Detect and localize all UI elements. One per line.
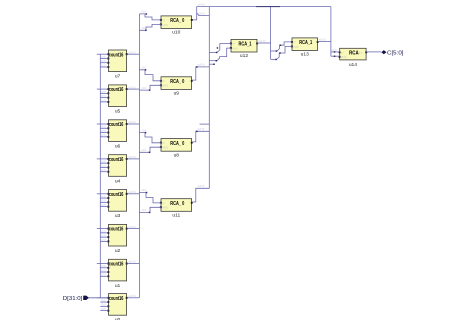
svg-text:q(3:0): q(3:0): [129, 120, 136, 124]
junction dot: [149, 89, 151, 91]
svg-text:c>: c>: [293, 40, 296, 44]
svg-text:u10: u10: [172, 30, 180, 36]
wire: u12 output to u12 bus: [257, 42, 271, 44]
adder u13 (RCA_1): [291, 38, 319, 58]
wire: output C[5:0]: [366, 51, 381, 53]
count block u4: [97, 155, 140, 185]
svg-text:(3:0: (3:0: [101, 168, 106, 172]
svg-text:(3:0: (3:0: [142, 66, 147, 70]
svg-text:u1: u1: [115, 283, 121, 289]
wire: u13 input staircase B: [277, 46, 292, 59]
count block u6: [97, 120, 140, 150]
svg-text:u5: u5: [115, 109, 121, 115]
junction dot: [276, 50, 278, 52]
wire: u14 input stub B: [331, 55, 340, 57]
svg-text:(4:0): (4:0): [162, 206, 168, 210]
svg-text:(5:0): (5:0): [341, 55, 347, 59]
junction dot: [196, 66, 198, 68]
input port marker D: [83, 296, 89, 300]
svg-text:u8: u8: [174, 152, 180, 158]
wire: u13 input bus rip A: [271, 50, 277, 52]
svg-text:RCA_ 0: RCA_ 0: [170, 201, 184, 207]
svg-text:u9: u9: [174, 91, 180, 97]
svg-text:(3:0: (3:0: [101, 199, 106, 203]
svg-text:(3:0: (3:0: [101, 234, 106, 238]
svg-text:(3:0: (3:0: [142, 128, 147, 132]
svg-text:RCA_ 0: RCA_ 0: [170, 18, 184, 24]
svg-text:(3:0: (3:0: [142, 188, 147, 192]
junction dot: [145, 69, 147, 71]
svg-text:count16: count16: [109, 296, 124, 302]
svg-text:(3:0: (3:0: [101, 90, 106, 94]
svg-text:(3:0: (3:0: [142, 26, 147, 30]
svg-text:count16: count16: [109, 227, 124, 233]
svg-text:(4:0): (4:0): [162, 84, 168, 88]
junction dot: [145, 30, 147, 32]
svg-text:(3:0: (3:0: [101, 164, 106, 168]
svg-text:u13: u13: [301, 52, 309, 58]
svg-text:(3:0: (3:0: [101, 229, 106, 233]
svg-text:(3:0: (3:0: [101, 160, 106, 164]
svg-text:c>: c>: [341, 51, 344, 55]
svg-text:u14: u14: [349, 62, 357, 68]
svg-text:count16: count16: [109, 192, 124, 198]
junction dot: [216, 60, 218, 62]
svg-text:s(4:0): s(4:0): [198, 127, 205, 131]
svg-text:s(4:0): s(4:0): [198, 12, 205, 16]
count block u7: [97, 50, 140, 80]
wire: u11 output to sum bus bottom: [192, 188, 210, 202]
svg-text:(3:0: (3:0: [101, 98, 106, 102]
svg-text:c>: c>: [162, 79, 165, 83]
svg-text:(3:0: (3:0: [101, 268, 106, 272]
adder u11 (RCA_0): [160, 199, 193, 219]
svg-text:s(4:0): s(4:0): [198, 184, 205, 188]
svg-text:u7: u7: [115, 74, 121, 80]
svg-text:q(3:0): q(3:0): [129, 155, 136, 159]
wire: u12 input bus rip B: [209, 60, 217, 62]
junction dot: [196, 131, 198, 133]
count block u2: [97, 224, 140, 254]
svg-text:(3:0: (3:0: [101, 194, 106, 198]
wire: RCA_0 sum bus vertical: [208, 7, 210, 189]
junction dot: [217, 47, 219, 49]
junction dot: [146, 13, 148, 15]
wire: u9 input staircase A: [139, 70, 161, 81]
svg-text:D[31:0]: D[31:0]: [63, 296, 83, 302]
svg-text:(4:0): (4:0): [293, 45, 299, 49]
svg-text:RCA_ 0: RCA_ 0: [170, 79, 184, 85]
wire: u11 input staircase A: [139, 193, 161, 203]
svg-text:(3:0: (3:0: [101, 59, 106, 63]
svg-text:count16: count16: [109, 122, 124, 128]
wire: u11 input staircase B: [139, 207, 161, 212]
svg-text:q(3:0): q(3:0): [129, 85, 136, 89]
count block u3: [97, 190, 140, 220]
wire: sum bus stub 2: [200, 123, 210, 125]
adder u14 (RCA): [339, 48, 368, 68]
wire: top long net from u10 output: [192, 7, 331, 20]
wire: u10 output tap to sum bus: [197, 13, 210, 16]
wire: sum bus stub: [209, 63, 215, 65]
svg-text:count16: count16: [109, 52, 124, 58]
wire: u8 input staircase A: [139, 133, 161, 143]
wire: u12 input staircase A: [217, 44, 231, 53]
svg-text:C[5:0]: C[5:0]: [387, 51, 404, 57]
svg-text:(4:0): (4:0): [162, 23, 168, 27]
svg-text:c>: c>: [162, 18, 165, 22]
svg-text:count16: count16: [109, 262, 124, 268]
svg-text:u12: u12: [240, 53, 248, 59]
label: net (4:0) on top wire: [256, 6, 280, 8]
svg-text:s(5:0): s(5:0): [319, 38, 326, 42]
svg-text:q(3:0): q(3:0): [129, 260, 136, 264]
svg-text:5:0: 5:0: [359, 51, 363, 55]
svg-text:count16: count16: [109, 87, 124, 93]
svg-text:(3:0: (3:0: [101, 303, 106, 307]
wire: u10 input staircase A: [139, 14, 161, 20]
wire: u13 output to u13 bus: [318, 41, 331, 43]
wire: u12 input staircase B: [217, 48, 231, 61]
svg-text:(3:0: (3:0: [101, 298, 106, 302]
wire: count-output collection bus vertical: [138, 14, 140, 298]
svg-text:(3:0: (3:0: [142, 10, 147, 14]
svg-text:(3:0: (3:0: [101, 238, 106, 242]
svg-text:(4:0): (4:0): [162, 146, 168, 150]
svg-text:u6: u6: [115, 143, 121, 149]
svg-text:(3:0: (3:0: [101, 203, 106, 207]
svg-text:q(3:0): q(3:0): [129, 50, 136, 54]
svg-text:(3:0: (3:0: [142, 86, 147, 90]
svg-text:c>: c>: [232, 42, 235, 46]
svg-text:(3:0: (3:0: [101, 273, 106, 277]
wire: u13 input staircase A: [277, 42, 292, 51]
wire: u13 sum bus vertical: [330, 7, 332, 57]
svg-text:(4:0): (4:0): [232, 46, 238, 50]
svg-text:(3:0: (3:0: [101, 55, 106, 59]
svg-text:s(4:0): s(4:0): [259, 39, 266, 43]
adder u12 (RCA_1): [230, 39, 258, 59]
svg-text:c>: c>: [162, 201, 165, 205]
output port marker C: [381, 50, 386, 54]
svg-text:(3:0: (3:0: [142, 208, 147, 212]
wire: u12 input bus rip A: [209, 51, 217, 53]
wire: input bus D[31:0] vertical: [99, 54, 101, 298]
count block u0: [97, 294, 140, 320]
wire: u9 output to sum bus: [192, 67, 210, 80]
svg-text:u4: u4: [115, 178, 121, 184]
adder u9 (RCA_0): [160, 77, 193, 97]
junction dot: [149, 152, 151, 154]
svg-text:(3:0: (3:0: [101, 94, 106, 98]
junction dot: [146, 192, 148, 194]
junction dot: [279, 52, 281, 54]
svg-text:(3:0: (3:0: [101, 133, 106, 137]
wire: u8 input staircase B: [139, 147, 161, 152]
count block u1: [97, 259, 140, 289]
svg-text:s(4:0): s(4:0): [198, 63, 205, 67]
adder u10 (RCA_0): [160, 16, 193, 36]
svg-text:q(3:0): q(3:0): [129, 294, 136, 298]
svg-text:(3:0: (3:0: [101, 125, 106, 129]
svg-text:s(4:0): s(4:0): [198, 3, 205, 7]
svg-text:u11: u11: [172, 213, 180, 219]
svg-text:q(3:0): q(3:0): [129, 225, 136, 229]
junction dot: [280, 45, 282, 47]
svg-text:RCA_ 0: RCA_ 0: [170, 141, 184, 147]
svg-text:RCA_1: RCA_1: [299, 40, 312, 46]
junction dot: [275, 59, 277, 61]
svg-text:count16: count16: [109, 157, 124, 163]
junction dot: [145, 132, 147, 134]
wire: u10 input staircase B: [139, 24, 161, 30]
wire: u9 input staircase B: [139, 85, 161, 90]
svg-text:(3:0: (3:0: [101, 307, 106, 311]
junction dot: [216, 52, 218, 54]
svg-text:c>: c>: [162, 141, 165, 145]
svg-text:(3:0: (3:0: [101, 129, 106, 133]
junction dot: [334, 56, 336, 58]
wire: u8 output to sum bus: [192, 131, 210, 142]
wire: u13 input bus rip B: [271, 58, 277, 60]
svg-text:(3:0: (3:0: [142, 148, 147, 152]
svg-text:RCA_1: RCA_1: [239, 42, 252, 48]
wire: u12 sum bus vertical: [270, 7, 272, 60]
count block u5: [97, 85, 140, 115]
junction dot: [213, 64, 215, 66]
adder u8 (RCA_0): [160, 139, 193, 159]
junction dot: [334, 51, 336, 53]
wire: D input to bus: [85, 297, 109, 299]
svg-text:u3: u3: [115, 213, 121, 219]
wire: u14 input stub A: [331, 51, 340, 53]
svg-text:(3:0: (3:0: [101, 63, 106, 67]
svg-text:u2: u2: [115, 248, 121, 254]
svg-text:(3:0: (3:0: [101, 264, 106, 268]
junction dot: [149, 212, 151, 214]
svg-text:q(3:0): q(3:0): [129, 190, 136, 194]
svg-text:RCA: RCA: [349, 51, 359, 57]
